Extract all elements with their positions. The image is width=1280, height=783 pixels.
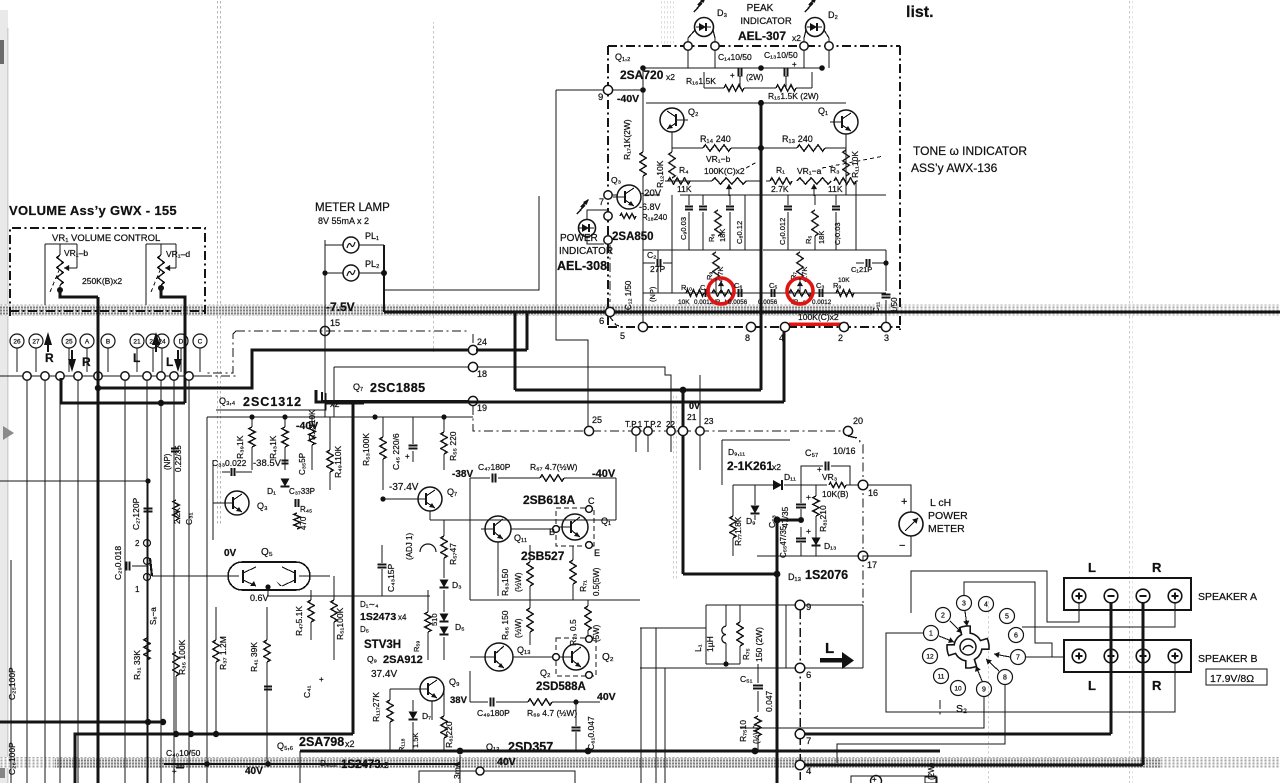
svg-text:PL₂: PL₂	[365, 259, 380, 269]
svg-text:-38.5V: -38.5V	[253, 458, 282, 469]
terminal strip channel arrows	[44, 332, 52, 345]
svg-text:x2: x2	[666, 72, 675, 82]
svg-text:C₂₅100P: C₂₅100P	[7, 667, 17, 700]
wire collector rail	[646, 102, 846, 104]
wire meter plus	[867, 485, 911, 512]
node 6 on bus	[605, 307, 614, 316]
wire Q13 to Q2	[513, 656, 552, 658]
speaker A terminals	[1072, 589, 1086, 603]
svg-text:8: 8	[745, 333, 750, 343]
svg-text:C₈0.12: C₈0.12	[735, 221, 744, 244]
dash-dot node20 down	[848, 436, 863, 640]
svg-text:Q₂: Q₂	[688, 107, 699, 117]
resistor R7 4.7K	[797, 252, 803, 278]
svg-text:20: 20	[853, 416, 863, 426]
svg-text:x2: x2	[345, 739, 355, 749]
svg-text:2SA798: 2SA798	[299, 735, 344, 749]
svg-text:D₁₃: D₁₃	[788, 572, 802, 582]
svg-text:12: 12	[926, 653, 934, 660]
svg-text:POWER: POWER	[560, 233, 598, 244]
left edge scan mark	[0, 40, 4, 64]
svg-text:+: +	[792, 60, 797, 69]
transistor Q13 driver	[485, 643, 513, 671]
svg-text:10K: 10K	[678, 299, 690, 306]
wire bundle to bottom edge	[640, 628, 642, 783]
svg-text:1/50: 1/50	[890, 297, 899, 313]
svg-text:C₂₉0.018: C₂₉0.018	[113, 546, 123, 580]
scan artifact vertical strip x=1131	[1129, 0, 1133, 783]
switch contact 10	[951, 681, 966, 696]
wire x=207	[206, 417, 208, 783]
wire node9 chain x=556	[556, 89, 603, 91]
switch wiring W4 contact1	[886, 633, 1175, 712]
svg-text:C₃0.012: C₃0.012	[778, 218, 787, 245]
switch contact 12	[923, 649, 938, 664]
thick bus node19	[322, 392, 469, 401]
C57 loop box	[801, 466, 823, 485]
svg-text:2SC1885: 2SC1885	[370, 381, 426, 395]
svg-text:D₅: D₅	[360, 625, 369, 634]
diodes D5 pair	[440, 614, 449, 622]
svg-text:−: −	[899, 540, 905, 552]
svg-text:R₅₇47: R₅₇47	[448, 543, 458, 565]
svg-text:8V 55mA x 2: 8V 55mA x 2	[318, 216, 369, 226]
wire node4 thick to speakers	[804, 764, 1143, 767]
wire into L1 block	[640, 627, 706, 629]
svg-text:C₅₇: C₅₇	[805, 448, 818, 458]
svg-text:40V: 40V	[597, 691, 616, 703]
svg-text:SPEAKER B: SPEAKER B	[1198, 653, 1258, 665]
switch wiring W3	[1025, 656, 1052, 658]
svg-text:R₄: R₄	[679, 165, 689, 175]
svg-text:Q₇: Q₇	[353, 382, 363, 392]
svg-text:R₁₃ 240: R₁₃ 240	[782, 134, 813, 144]
svg-text:10/16: 10/16	[833, 446, 856, 456]
tone verticals texture	[671, 195, 673, 250]
svg-text:D₉‚₁₈: D₉‚₁₈	[320, 759, 337, 768]
svg-text:0.5(5W): 0.5(5W)	[592, 567, 601, 596]
svg-text:1S2473: 1S2473	[360, 611, 396, 623]
svg-text:POWER: POWER	[928, 510, 968, 522]
svg-text:VR₁ VOLUME CONTROL: VR₁ VOLUME CONTROL	[52, 233, 160, 244]
resistor R15 1.5K 2W	[776, 85, 796, 91]
svg-text:AEL-307: AEL-307	[738, 29, 786, 43]
node 22	[667, 427, 675, 435]
svg-text:+: +	[901, 496, 907, 508]
svg-text:L: L	[1088, 560, 1096, 575]
svg-text:R₆₉ 4.7 (½W): R₆₉ 4.7 (½W)	[527, 708, 577, 718]
2SC1885 box edges	[333, 367, 335, 417]
svg-text:-7.5V: -7.5V	[326, 300, 355, 314]
svg-text:C₁₁: C₁₁	[872, 302, 881, 313]
svg-text:C₄₃15P: C₄₃15P	[386, 563, 396, 592]
svg-text:17.9V/8Ω: 17.9V/8Ω	[1210, 673, 1254, 685]
svg-text:D₂: D₂	[828, 10, 838, 20]
svg-text:(NP): (NP)	[648, 286, 657, 302]
svg-text:R₃: R₃	[830, 165, 840, 175]
svg-text:D₉‚₁₁: D₉‚₁₁	[728, 447, 745, 457]
wire Q5 row	[152, 575, 228, 577]
volume assembly dash-dot box	[10, 228, 205, 316]
svg-text:D₁₃: D₁₃	[824, 541, 836, 551]
transistor Q9	[420, 677, 444, 701]
svg-text:+: +	[319, 675, 324, 684]
svg-text:Q₂: Q₂	[602, 652, 614, 663]
svg-text:Q₅: Q₅	[261, 547, 273, 558]
svg-text:C₅₅47/35: C₅₅47/35	[779, 525, 788, 558]
switch wiring W6 contact9	[740, 696, 984, 728]
svg-text:0.0056: 0.0056	[758, 299, 778, 306]
svg-text:R₁₄ 240: R₁₄ 240	[700, 134, 731, 144]
svg-text:2SD588A: 2SD588A	[536, 681, 586, 693]
svg-text:L: L	[1088, 678, 1096, 693]
left margin play marker	[3, 426, 14, 440]
R channel meter box bottom	[851, 776, 936, 783]
volume box bottom edge in band	[10, 310, 205, 312]
svg-text:100K(C)x2: 100K(C)x2	[704, 166, 745, 176]
svg-text:R₁₆1.5K: R₁₆1.5K	[686, 76, 716, 86]
capacitor C4 0.0012	[705, 289, 707, 297]
svg-text:VR₁–d: VR₁–d	[166, 249, 190, 259]
svg-text:R₄₅: R₄₅	[300, 505, 312, 514]
svg-text:INDICATOR: INDICATOR	[559, 246, 613, 257]
tone row y=250 wires	[643, 249, 760, 251]
dash-dot rail x=800	[799, 610, 801, 780]
potentiometer VR1-b tone	[665, 180, 712, 182]
svg-text:D₁∼₄: D₁∼₄	[360, 600, 378, 609]
svg-text:(½W): (½W)	[514, 572, 523, 592]
svg-text:-40V: -40V	[617, 93, 639, 105]
svg-text:Q₁₁: Q₁₁	[514, 533, 527, 543]
D9,11 box outline	[721, 440, 723, 485]
switch contact 8	[998, 670, 1013, 685]
svg-text:40V: 40V	[245, 766, 263, 777]
svg-text:27: 27	[32, 338, 40, 345]
thick bus y=722 left	[0, 721, 163, 724]
node 20	[843, 426, 852, 435]
svg-text:40V: 40V	[497, 756, 516, 768]
svg-text:10K: 10K	[838, 277, 850, 284]
svg-text:R₅₅ 220: R₅₅ 220	[448, 431, 458, 461]
switch wiring W1	[911, 571, 1079, 622]
lamp PL1	[343, 237, 359, 253]
svg-text:R₄₇5.1K: R₄₇5.1K	[294, 606, 304, 636]
svg-text:9: 9	[806, 602, 811, 613]
svg-text:R₆₃150: R₆₃150	[500, 569, 510, 596]
node 6b	[795, 663, 805, 673]
thick jog to x=777	[683, 573, 777, 576]
node 18 row	[468, 362, 477, 371]
svg-text:17: 17	[867, 560, 877, 570]
svg-text:2: 2	[941, 613, 945, 620]
svg-text:(½W): (½W)	[514, 618, 523, 638]
resistor R6 18K	[715, 210, 721, 236]
svg-text:4: 4	[806, 766, 811, 777]
svg-text:15: 15	[330, 318, 340, 328]
svg-text:R₁₈240: R₁₈240	[642, 213, 668, 222]
svg-text:24: 24	[477, 337, 487, 347]
svg-text:R: R	[45, 351, 54, 365]
wire Q7 emitter	[429, 511, 431, 520]
switch contact 2	[936, 608, 951, 623]
svg-text:C₃₁: C₃₁	[184, 512, 194, 525]
svg-text:3: 3	[884, 333, 889, 343]
LED D2	[806, 18, 825, 37]
switch contact 4	[979, 597, 994, 612]
capacitor C5 0.0056	[771, 289, 773, 297]
transistor Q3 2SA850	[617, 185, 641, 209]
wire node7 thick to speakers	[804, 733, 1111, 736]
speaker B leads	[1078, 663, 1080, 668]
wire node24 drop	[472, 334, 474, 346]
svg-text:-6.8V: -6.8V	[639, 202, 661, 212]
2SC1312 label box lines	[216, 393, 326, 410]
node 25	[584, 426, 593, 435]
scan artifact vertical strip x=434	[432, 22, 436, 352]
svg-text:D₉: D₉	[746, 516, 756, 526]
red circle annotation left	[708, 278, 734, 304]
thick wire y=403	[61, 378, 185, 403]
bottom right verticals	[939, 700, 941, 716]
svg-text:R₄₃1K: R₄₃1K	[268, 435, 278, 459]
wire node15 vertical	[324, 290, 326, 417]
svg-text:C₃₅5P: C₃₅5P	[298, 453, 307, 475]
svg-text:R₁₁₇27K: R₁₁₇27K	[371, 692, 381, 722]
svg-text:C₅₃: C₅₃	[767, 515, 777, 528]
speaker B box	[1064, 640, 1191, 672]
label 17.9V/8ohm box	[1206, 669, 1267, 685]
capacitor C9 0.03	[685, 206, 693, 208]
scan artifact blob top x=668	[660, 0, 674, 44]
svg-text:C₅: C₅	[769, 281, 777, 290]
diode D1	[281, 479, 290, 487]
wire y=596 interstage	[268, 595, 430, 597]
bottom right small square	[925, 777, 937, 783]
svg-text:Q₁₃: Q₁₃	[517, 645, 531, 655]
wire bundle outer x=11	[10, 560, 12, 783]
svg-text:(2W): (2W)	[927, 762, 936, 780]
svg-text:2SA912: 2SA912	[383, 654, 423, 666]
svg-text:R₁: R₁	[776, 165, 785, 175]
svg-text:STV3H: STV3H	[364, 639, 401, 651]
thick rail x=515	[514, 313, 517, 390]
svg-text:+: +	[405, 452, 410, 461]
svg-text:18K: 18K	[817, 231, 826, 244]
scan artifact strip x=988	[986, 598, 990, 783]
svg-text:C₄₀10/50: C₄₀10/50	[166, 748, 201, 758]
svg-text:S₂: S₂	[956, 703, 967, 715]
thick junction into block	[777, 519, 801, 522]
svg-text:R₅₉: R₅₉	[412, 641, 421, 652]
thick bus y=733 left	[75, 734, 353, 783]
svg-text:47/35: 47/35	[780, 506, 790, 528]
svg-text:C: C	[588, 496, 595, 506]
switch contact 9	[977, 682, 992, 697]
svg-text:19: 19	[477, 403, 487, 413]
wire bottom row node17	[757, 555, 858, 557]
thick bus y=390	[515, 389, 761, 392]
thick rail x=353 down	[352, 402, 355, 734]
svg-text:-37.4V: -37.4V	[389, 482, 419, 493]
wire rail y=417 inner	[325, 416, 473, 418]
svg-text:PEAK: PEAK	[747, 3, 774, 14]
svg-text:-40V: -40V	[592, 468, 616, 480]
svg-text:11K: 11K	[828, 184, 843, 194]
svg-text:C₅₁: C₅₁	[740, 674, 753, 684]
svg-text:L cH: L cH	[930, 497, 951, 509]
svg-text:METER LAMP: METER LAMP	[315, 202, 390, 214]
svg-text:3: 3	[962, 601, 966, 608]
svg-text:C₁₃10/50: C₁₃10/50	[764, 50, 798, 60]
svg-text:C₂₆100P: C₂₆100P	[7, 742, 17, 775]
svg-text:0.047: 0.047	[764, 690, 774, 712]
red circle annotation right	[787, 278, 813, 304]
svg-text:+: +	[172, 767, 177, 776]
svg-text:+: +	[872, 775, 877, 783]
resistor R8 10K	[836, 290, 854, 296]
svg-text:ASS’y AWX-136: ASS’y AWX-136	[911, 161, 998, 175]
svg-text:C₃: C₃	[816, 281, 824, 290]
svg-text:Q₃: Q₃	[257, 501, 268, 511]
svg-text:9: 9	[598, 92, 603, 103]
potentiometer VR1-d	[145, 244, 147, 290]
L-ch power meter	[899, 512, 923, 536]
svg-text:C₄₁: C₄₁	[302, 685, 312, 698]
thick bus node24 right segment	[476, 349, 527, 352]
svg-text:D₁: D₁	[267, 486, 276, 496]
wire thick VR1-d wiper to terminal	[158, 285, 164, 291]
resistor R5 18K	[812, 210, 818, 236]
node row y=431 dash-dot	[592, 430, 844, 432]
svg-text:R₄₉110K: R₄₉110K	[333, 445, 343, 478]
node 23	[696, 427, 704, 435]
svg-text:R₉: R₉	[705, 272, 714, 280]
svg-text:11K: 11K	[677, 184, 692, 194]
svg-text:R₁₇1K(2W): R₁₇1K(2W)	[622, 119, 632, 160]
svg-text:Q₁: Q₁	[818, 106, 828, 116]
wire lamp to power indicator	[384, 196, 539, 290]
halftone fold band 2	[0, 757, 1280, 768]
svg-text:C₄₉180P: C₄₉180P	[477, 708, 510, 718]
svg-text:Q₂: Q₂	[540, 668, 551, 678]
capacitor C11 1/50 NP	[882, 293, 891, 295]
svg-text:C₂: C₂	[647, 250, 656, 260]
box around L arrow	[785, 605, 787, 668]
trimmer row y=293 wires	[643, 292, 886, 294]
node 19	[468, 396, 477, 405]
diode D11	[773, 480, 782, 490]
svg-text:4: 4	[779, 333, 784, 343]
svg-text:R₇₁: R₇₁	[578, 580, 588, 592]
node 16	[858, 480, 868, 490]
svg-text:C₉0.03: C₉0.03	[679, 217, 688, 240]
svg-text:1S2473: 1S2473	[341, 759, 381, 771]
svg-text:PL₁: PL₁	[365, 231, 379, 241]
svg-text:0.0056: 0.0056	[728, 299, 748, 306]
svg-text:+: +	[806, 492, 811, 502]
svg-text:R₃₉1K: R₃₉1K	[235, 435, 245, 459]
transistor Q7	[418, 487, 442, 511]
svg-text:4: 4	[984, 602, 988, 609]
svg-text:E: E	[594, 548, 600, 558]
svg-text:SPEAKER A: SPEAKER A	[1198, 591, 1257, 603]
svg-text:VR₁–b: VR₁–b	[64, 248, 88, 258]
svg-text:100K(C)x2: 100K(C)x2	[798, 312, 839, 322]
svg-text:Q₉: Q₉	[449, 677, 460, 687]
switch contact 7	[1011, 650, 1026, 665]
svg-text:VR₁−a: VR₁−a	[797, 166, 822, 176]
bottom box 2SA798	[299, 751, 301, 783]
wire speaker A plus R	[1022, 622, 1175, 627]
terminal strip circled numbers	[10, 334, 24, 348]
svg-text:D₃: D₃	[452, 580, 462, 590]
svg-text:R₇₅10: R₇₅10	[738, 720, 748, 742]
node 24	[468, 345, 477, 354]
node 4b	[795, 760, 805, 770]
svg-text:C₁₄10/50: C₁₄10/50	[718, 52, 752, 62]
svg-text:6: 6	[1014, 633, 1018, 640]
node 21 0V	[678, 426, 687, 435]
svg-text:x4: x4	[398, 613, 407, 622]
wire node9 left	[706, 604, 796, 606]
wire node6 to switch	[804, 667, 863, 669]
svg-text:R₄₁ 39K: R₄₁ 39K	[249, 642, 259, 672]
svg-text:list.: list.	[906, 4, 934, 21]
svg-text:2SC1312: 2SC1312	[243, 395, 302, 409]
2SC1312 box top edge	[207, 404, 364, 417]
wire y=664 node	[706, 663, 740, 665]
speaker A box	[1064, 578, 1191, 610]
adj arc	[420, 544, 436, 552]
thick rail x=683 0V	[682, 390, 685, 574]
svg-text:D₇: D₇	[422, 711, 431, 721]
svg-text:18: 18	[477, 369, 487, 379]
svg-text:0V: 0V	[224, 548, 237, 559]
svg-text:18K: 18K	[718, 229, 727, 242]
svg-text:0V: 0V	[689, 401, 700, 411]
thick bottom bus y=751	[300, 750, 940, 753]
scan artifact vertical strip x=219	[217, 0, 222, 525]
svg-text:+: +	[730, 71, 735, 80]
node 17	[858, 551, 868, 561]
svg-text:B: B	[106, 338, 110, 345]
svg-text:21: 21	[687, 412, 697, 422]
svg-text:L₁: L₁	[693, 644, 703, 652]
dash-dot node5	[610, 317, 623, 327]
switch contact 3	[957, 596, 972, 611]
capacitor C7 0.03	[832, 206, 840, 208]
svg-text:+: +	[806, 526, 811, 536]
svg-text:Q₁: Q₁	[601, 516, 611, 526]
diode D9	[751, 506, 760, 514]
power indicator dash-dot edge	[609, 245, 611, 302]
svg-text:L: L	[166, 355, 173, 369]
wire node16 row	[733, 484, 773, 486]
wire y=481 left	[0, 480, 148, 482]
svg-text:(ADJ 1): (ADJ 1)	[405, 533, 414, 560]
resistor R9 4.7K	[713, 252, 719, 278]
svg-text:x2: x2	[792, 33, 801, 43]
svg-text:R₇₃ 0.5: R₇₃ 0.5	[568, 619, 578, 646]
wire meter minus	[863, 536, 911, 561]
svg-text:5: 5	[1005, 614, 1009, 621]
svg-text:x2: x2	[772, 462, 781, 472]
switch wiring W2	[964, 582, 1064, 657]
svg-text:C₄₅ 220/6: C₄₅ 220/6	[391, 433, 401, 470]
svg-text:150 (2W): 150 (2W)	[754, 627, 764, 662]
svg-text:VR₁−b: VR₁−b	[706, 154, 731, 164]
test point nodes	[632, 427, 640, 435]
